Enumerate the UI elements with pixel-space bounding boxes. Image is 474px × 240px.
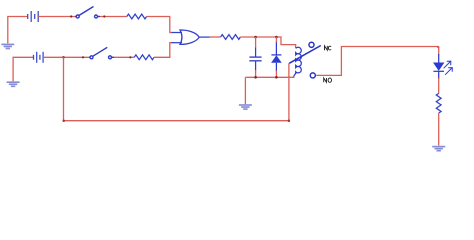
node dot left of SW2 (82, 56, 84, 58)
wire: down to LED anode (438, 47, 440, 56)
wire: R2 right then up to OR gate input B (154, 43, 173, 58)
ground G1 (1, 44, 14, 48)
wire: diode bottom stub (275, 71, 277, 78)
switch SW1 (75, 7, 100, 19)
or-gate U1 body (180, 30, 199, 44)
junction node bottom right (288, 119, 291, 122)
OR gate U1 output stub (199, 36, 210, 38)
LED D2 (433, 54, 444, 79)
diode D1 (271, 43, 282, 72)
NC contact (309, 42, 314, 47)
wire: bottom rail under cap and diode (245, 76, 294, 78)
resistor R3 (221, 35, 241, 40)
wire: battery B1 left lead down to ground G1 (8, 17, 28, 44)
wire: NO contact right, up and across to LED (316, 47, 439, 76)
battery B1 (28, 11, 39, 22)
ground G2 (7, 82, 20, 86)
junction node cap top (254, 36, 257, 39)
wire: R4 down to ground G4 (438, 113, 440, 146)
NO contact (310, 73, 315, 78)
resistor R2 (134, 55, 154, 60)
resistor R4 (vertical) (436, 93, 441, 113)
wire: R3 to relay coil top with step (240, 37, 295, 48)
relay coil L1 (294, 47, 302, 76)
wire: relay common down to bottom bus and back to battery B2 (64, 57, 289, 120)
wire: LED to resistor R4 (438, 78, 440, 93)
wire: SW1 to resistor R1 (100, 16, 127, 18)
wire: rail down to ground G3 (244, 77, 246, 104)
NO label (324, 78, 332, 82)
node dot right of SW2 (129, 56, 131, 58)
wire: battery B2 left lead down to ground G2 (13, 57, 33, 81)
wire: R1 right then down to OR gate input A (147, 17, 173, 33)
OR gate U1 input stub A (172, 32, 183, 34)
ground G4 (432, 147, 445, 151)
battery B2 (34, 52, 44, 63)
corner node at LED top (437, 46, 439, 48)
junction node diode bottom (275, 76, 278, 79)
junction node cap bottom (254, 76, 257, 79)
junction node diode top (275, 36, 278, 39)
capacitor C1 (249, 48, 261, 71)
node dot left of SW1 (70, 15, 72, 17)
wire: SW2 to resistor R2 (114, 56, 134, 58)
junction node at T to bottom bus (62, 56, 65, 59)
LED arrows (444, 61, 453, 75)
node dot right of SW1 (103, 15, 105, 17)
wire: diode top stub (275, 37, 277, 43)
wire: battery B1 to switch SW1 (38, 16, 75, 18)
OR gate U1 input stub B (172, 42, 183, 44)
junction node bottom left (62, 119, 64, 122)
wire: cap top stub (255, 37, 257, 48)
switch SW2 (89, 47, 114, 59)
ground G3 (239, 105, 252, 109)
wire: battery B2 to switch SW2 (43, 56, 89, 58)
wire: cap bottom stub (255, 70, 257, 77)
NC label (325, 46, 332, 50)
relay blade (common arm) (289, 46, 321, 64)
resistor R1 (127, 14, 147, 19)
wire: gate output to resistor R3 (210, 36, 221, 38)
